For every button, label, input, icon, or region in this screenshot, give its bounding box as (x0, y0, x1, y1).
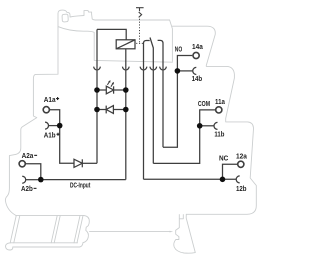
svg-text:11b: 11b (214, 132, 224, 139)
svg-text:14b: 14b (192, 76, 203, 83)
svg-text:A2b: A2b (21, 186, 33, 193)
svg-text:A1b: A1b (44, 133, 56, 140)
svg-text:14a: 14a (192, 44, 203, 51)
svg-text:COM: COM (198, 101, 210, 108)
svg-text:12b: 12b (236, 186, 247, 193)
svg-text:12a: 12a (236, 153, 247, 160)
svg-text:NC: NC (219, 155, 228, 162)
svg-text:A2a: A2a (22, 153, 34, 160)
svg-text:11a: 11a (215, 99, 225, 106)
svg-text:A1a: A1a (44, 97, 56, 104)
svg-text:NO: NO (175, 47, 183, 54)
svg-text:DC-Input: DC-Input (70, 182, 91, 189)
